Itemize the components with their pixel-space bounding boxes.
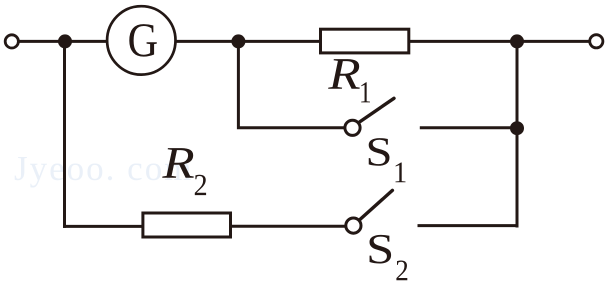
wire left terminal to galvanometer (19, 40, 108, 43)
wire bottom left to R2 (63, 225, 143, 228)
label R2 (162, 148, 194, 178)
resistor R1 (321, 29, 409, 53)
wire R2 to switch S2 (230, 225, 346, 228)
wire galvanometer to R1 (176, 40, 320, 43)
wire R1 to right terminal (409, 40, 590, 43)
galvanometer G letter (129, 24, 156, 57)
terminal left (5, 35, 18, 48)
label S1 (369, 138, 390, 166)
node B (top junction) (231, 34, 245, 48)
switch S2 lever (360, 190, 393, 219)
node C (top right junction) (510, 34, 524, 48)
label S2 (370, 235, 392, 264)
wire node B down to switch S1 (238, 41, 345, 127)
switch S1 pivot circle (345, 120, 360, 135)
wire switch S1 to node D (420, 126, 517, 129)
wire right vertical (node C to bottom corner) (516, 41, 518, 226)
label R1 (328, 59, 360, 89)
node A (left junction) (58, 34, 72, 48)
resistor R2 (143, 213, 231, 237)
galvanometer G circle (107, 6, 175, 74)
node D (right mid junction) (510, 121, 524, 135)
svg-text:Jyeoo. com: Jyeoo. com (14, 149, 193, 188)
wire switch S2 to right vertical (418, 224, 519, 227)
terminal right (590, 35, 603, 48)
switch S2 pivot circle (346, 218, 361, 233)
switch S1 lever (360, 98, 395, 122)
wire node A down (left vertical) (63, 41, 66, 228)
